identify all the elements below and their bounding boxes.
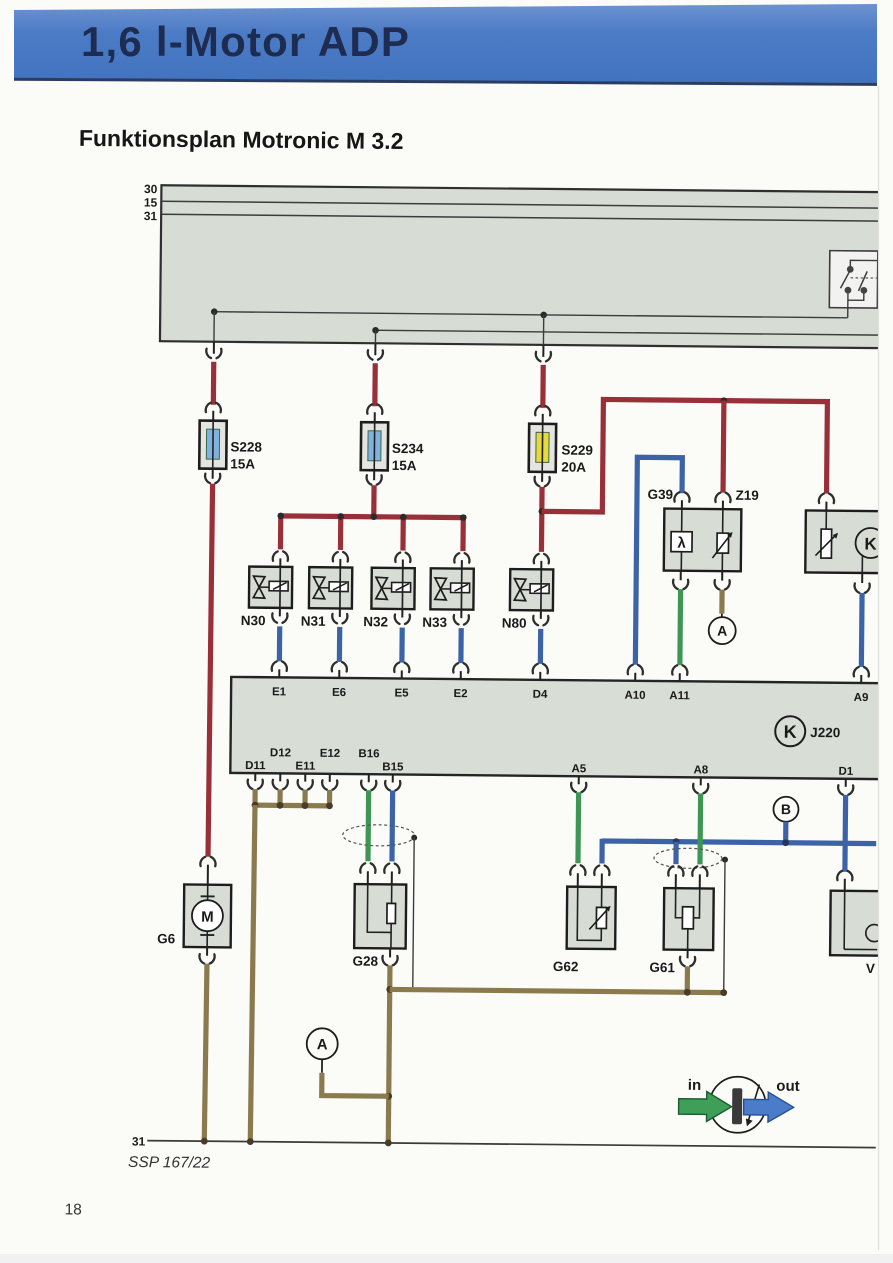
terminal 31 rail — [161, 214, 882, 221]
legend idle arrow — [748, 1084, 759, 1122]
wire blue sensor bus — [602, 841, 876, 844]
injector supply bus red — [280, 516, 463, 551]
svg-text:N33: N33 — [422, 615, 447, 630]
svg-text:K: K — [864, 534, 877, 553]
circle K in sensor box — [855, 528, 885, 558]
svg-text:20A: 20A — [561, 460, 586, 475]
connector G62 left — [570, 865, 585, 875]
connector ECU pin D12 — [279, 773, 281, 781]
pin Z19 top — [722, 501, 724, 510]
V60 internal symbol — [843, 891, 846, 949]
ignition switch contact top — [847, 266, 854, 273]
injector N33 — [422, 553, 474, 630]
header blue banner — [14, 4, 877, 83]
connector G39 bottom — [673, 580, 688, 590]
svg-text:G39: G39 — [647, 487, 673, 502]
knock sensor G61 box — [664, 888, 714, 950]
sensor ground bus brown — [255, 803, 329, 809]
wire drop in rail box to S229 — [542, 315, 544, 345]
connector ECU pin A10 — [628, 665, 643, 675]
svg-text:A5: A5 — [571, 763, 586, 775]
connector G62 right — [594, 865, 609, 875]
svg-text:D1: D1 — [838, 766, 853, 778]
wire A10 to G39 blue — [635, 457, 682, 665]
pin Z19 bottom — [721, 571, 723, 580]
injector N31 — [301, 552, 353, 629]
ignition switch blade left — [840, 270, 850, 288]
svg-text:G61: G61 — [649, 960, 675, 975]
svg-text:31: 31 — [144, 209, 158, 223]
svg-text:B15: B15 — [382, 761, 404, 773]
connector G6 bottom — [199, 954, 214, 964]
node shield drain G61 — [722, 857, 728, 863]
svg-text:E1: E1 — [272, 686, 287, 698]
svg-text:B16: B16 — [358, 748, 379, 760]
wire D11 brown — [252, 789, 257, 805]
wire Z19 to ground point A brown — [719, 590, 724, 614]
legend in arrow green — [678, 1091, 731, 1122]
wire E11 brown — [302, 790, 307, 806]
svg-text:S228: S228 — [230, 439, 262, 454]
svg-text:M: M — [201, 909, 214, 926]
wire D12 brown — [277, 789, 282, 805]
pin G39 bottom — [680, 571, 682, 580]
svg-text:N80: N80 — [502, 615, 527, 630]
node sensor ground bus — [302, 802, 309, 809]
ground reference circle A upper — [709, 617, 736, 644]
svg-text:J220: J220 — [810, 725, 840, 740]
node ground sensor return — [247, 1138, 254, 1145]
ignition switch coupling dashes — [851, 277, 877, 279]
node line A at S229 drop — [540, 312, 547, 319]
pin G28 bottom — [389, 948, 391, 957]
node ground G28 branch — [385, 1139, 392, 1146]
node bus at S234 — [370, 513, 377, 520]
connector V60 top — [837, 871, 852, 881]
ignition switch bridge — [848, 290, 863, 300]
wire blue to G61 — [673, 842, 678, 864]
ground wire to terminal 31 brown — [250, 805, 255, 1141]
wire B15 to G28 blue — [389, 790, 395, 861]
terminal 30 feed line B — [376, 330, 881, 335]
bus drop to N32 red — [400, 517, 406, 550]
connector ECU pin E12 — [329, 774, 331, 782]
wire E12 brown — [327, 790, 332, 806]
wire K box to A9 blue — [859, 593, 865, 667]
connector ECU pin D1 — [845, 779, 847, 787]
connector below rail box S229 column — [536, 352, 551, 362]
connector ECU pin D4 — [533, 664, 548, 674]
connector ECU pin E6 — [332, 662, 347, 672]
G62 internal variable resistor — [577, 887, 602, 941]
bus drop to N31 red — [338, 516, 344, 549]
svg-text:B: B — [781, 801, 791, 817]
node line B at S234 drop — [372, 327, 379, 334]
shield drain wire G28 — [413, 838, 414, 990]
node bus at N33 — [460, 514, 467, 521]
shield ellipse G28 — [343, 824, 415, 846]
legend out arrow blue — [743, 1092, 793, 1122]
injector N32 — [363, 552, 415, 629]
wire D4 blue — [538, 629, 544, 664]
wire red feed to Z19 — [720, 401, 726, 493]
connector Z19 bottom — [715, 580, 730, 590]
stub circle B blue — [783, 822, 788, 843]
svg-text:1,6 l-Motor ADP: 1,6 l-Motor ADP — [81, 18, 410, 65]
heater resistor Z19 — [722, 509, 724, 533]
stub to circle A — [721, 614, 723, 617]
page right margin — [878, 84, 893, 1263]
svg-text:D11: D11 — [245, 760, 266, 772]
pin sensor K box bottom — [861, 556, 863, 573]
connector ECU pin E5 — [394, 663, 409, 673]
G6 motor symbol — [207, 885, 209, 900]
engine control unit J220 box — [230, 677, 880, 779]
connector below K box — [854, 583, 869, 593]
fuel pump G6 box — [184, 884, 232, 947]
connector sensor K box top — [819, 494, 834, 504]
wire B16 to G28 green — [365, 790, 371, 861]
terminal 15 feed line A — [214, 312, 847, 318]
ignition switch terminal 30 input wire — [847, 290, 849, 318]
wire A8 to G61 green — [697, 793, 703, 864]
connector G6 top — [200, 857, 215, 867]
connector ECU pin A9 — [854, 667, 869, 677]
wire G61 ground brown — [685, 966, 690, 992]
positioner V60 box — [830, 891, 882, 956]
connector G28 left — [360, 863, 375, 873]
svg-text:E6: E6 — [332, 687, 346, 699]
svg-text:A8: A8 — [693, 764, 708, 776]
oxygen sensor G39 Z19 box — [664, 509, 742, 572]
ignition switch contact bottom right — [860, 287, 867, 294]
coolant sensor G62 box — [567, 887, 616, 949]
shield ellipse G61 — [654, 848, 722, 869]
power supply rail box — [160, 185, 882, 348]
G61 internal symbol — [675, 888, 682, 918]
connector Z19 top — [715, 493, 730, 503]
connector ECU pin A8 — [700, 777, 702, 785]
svg-text:15A: 15A — [392, 458, 417, 473]
svg-text:A: A — [317, 1036, 328, 1053]
page bottom shade — [0, 1254, 893, 1263]
connector ECU pin E1 — [272, 661, 287, 671]
svg-text:A10: A10 — [624, 690, 645, 702]
stub circle A — [321, 1059, 323, 1072]
node bus at N30 — [277, 513, 284, 520]
connector G39 top — [674, 492, 689, 502]
svg-text:S229: S229 — [561, 443, 593, 458]
pin G39 top — [681, 500, 683, 509]
variable resistor in K box — [825, 511, 827, 529]
connector ECU pin A5 — [578, 776, 580, 784]
svg-text:A11: A11 — [669, 690, 690, 702]
svg-text:G6: G6 — [157, 931, 176, 946]
fuse S234 15A — [361, 363, 425, 485]
svg-text:out: out — [776, 1078, 799, 1095]
svg-text:V: V — [866, 961, 875, 976]
connector ECU pin E11 — [304, 774, 306, 782]
wire drop in rail box to S228 — [213, 312, 215, 342]
svg-text:E11: E11 — [295, 761, 316, 773]
control unit symbol K and designation J220 — [775, 716, 805, 746]
pin sensor K box top — [825, 502, 827, 511]
wire D1 blue — [842, 795, 848, 872]
ignition switch output to terminal 15 — [850, 260, 877, 269]
node blue bus at G61 — [673, 838, 680, 845]
node sensor ground bus — [277, 802, 284, 809]
wire G6 ground brown — [204, 964, 207, 1142]
svg-text:K: K — [784, 722, 797, 742]
shield drain wire G61 — [724, 860, 725, 993]
wire drop in rail box to S234 — [374, 330, 376, 343]
pin below rail box to S229 — [542, 345, 544, 357]
svg-text:SSP 167/22: SSP 167/22 — [128, 1154, 211, 1172]
node shield drain G28 — [411, 835, 417, 841]
connector ECU pin D11 — [254, 773, 256, 781]
node G61 ground — [684, 989, 691, 996]
G28 internal symbol — [367, 884, 391, 932]
ground reference circle A lower — [307, 1028, 338, 1059]
sensor with K box — [805, 510, 882, 573]
injector N30 — [241, 551, 293, 628]
node G28 at sensor ground — [386, 986, 393, 993]
pin below rail box to S228 — [213, 342, 215, 354]
lambda symbol G39 — [681, 509, 683, 532]
node G28 at point A wire — [385, 1093, 392, 1100]
legend throttle plate — [732, 1088, 742, 1124]
connector G61 left — [668, 866, 683, 876]
connector ECU pin B16 — [368, 774, 370, 782]
wire point A to ground brown — [322, 1073, 389, 1096]
pin below rail box to S234 — [374, 343, 376, 355]
wire S234 to injector bus red — [371, 485, 377, 516]
connector G61 bottom — [680, 957, 695, 967]
wire E6 blue — [337, 627, 343, 662]
svg-text:N31: N31 — [301, 614, 326, 629]
terminal 15 rail — [161, 201, 882, 208]
svg-text:G62: G62 — [553, 959, 579, 974]
fuse S229 20A — [529, 365, 594, 487]
connector below rail box S234 column — [368, 350, 383, 360]
connector ECU pin B15 — [392, 774, 394, 782]
node ground G6 — [201, 1138, 208, 1145]
svg-text:Funktionsplan Motronic M 3.2: Funktionsplan Motronic M 3.2 — [79, 125, 404, 154]
connector G61 right — [692, 866, 707, 876]
connector ECU pin A11 — [672, 665, 687, 675]
svg-text:G28: G28 — [352, 954, 378, 969]
connection circle B — [773, 797, 798, 822]
node red feed at Z19 — [721, 397, 728, 404]
ignition switch blade right — [858, 271, 867, 291]
wire S229 to N80 red — [539, 487, 545, 552]
wire G28 ground brown — [388, 965, 390, 1142]
node shield G61 ground — [720, 989, 727, 996]
wire E5 blue — [399, 628, 405, 663]
node line A at S228 drop — [211, 308, 218, 315]
node sensor ground bus — [326, 802, 333, 809]
svg-text:31: 31 — [132, 1134, 146, 1148]
node blue bus at B — [782, 839, 789, 846]
wire S228 to G6 red — [208, 484, 213, 857]
svg-text:15: 15 — [144, 196, 158, 210]
ignition switch housing — [829, 251, 878, 308]
sensor ground bus lower brown — [390, 989, 724, 992]
connector ECU pin E2 — [453, 663, 468, 673]
svg-text:E12: E12 — [320, 748, 341, 760]
svg-text:D12: D12 — [270, 747, 291, 759]
legend circle throttle — [709, 1077, 766, 1134]
fuse S228 15A — [199, 362, 263, 484]
svg-text:A: A — [717, 623, 727, 639]
valve N80 — [502, 554, 554, 631]
svg-text:A9: A9 — [854, 692, 869, 704]
svg-text:D4: D4 — [533, 689, 548, 701]
svg-text:Z19: Z19 — [735, 488, 758, 503]
pin G6 bottom — [206, 947, 208, 955]
svg-text:N32: N32 — [363, 614, 388, 629]
wire E1 blue — [277, 626, 283, 661]
svg-text:N30: N30 — [241, 613, 266, 628]
node sensor ground bus — [252, 802, 259, 809]
svg-text:E5: E5 — [394, 687, 409, 699]
wire E2 blue — [458, 628, 464, 663]
node bus at N32 — [400, 514, 407, 521]
connector below rail box S228 column — [206, 349, 221, 359]
wire A5 to G62 green — [575, 792, 581, 863]
svg-text:30: 30 — [144, 182, 158, 196]
svg-text:15A: 15A — [230, 456, 255, 471]
connector G28 bottom — [382, 956, 397, 966]
svg-text:λ: λ — [677, 535, 686, 552]
riser blue to G62 — [599, 839, 604, 864]
node S229 branch — [539, 508, 546, 515]
svg-text:18: 18 — [65, 1201, 82, 1218]
red branch to Z19 and right sensor — [542, 399, 828, 514]
svg-text:E2: E2 — [453, 688, 467, 700]
connector G28 right — [384, 863, 399, 873]
svg-text:in: in — [688, 1077, 702, 1094]
wire G39 to A11 green — [677, 589, 683, 665]
speed sender G28 box — [354, 884, 406, 948]
node bus at N31 — [337, 513, 344, 520]
terminal 31 ground line — [147, 1141, 875, 1148]
svg-text:S234: S234 — [392, 441, 424, 456]
pin G61 bottom — [687, 950, 689, 958]
ignition switch contact bottom left — [845, 287, 852, 294]
